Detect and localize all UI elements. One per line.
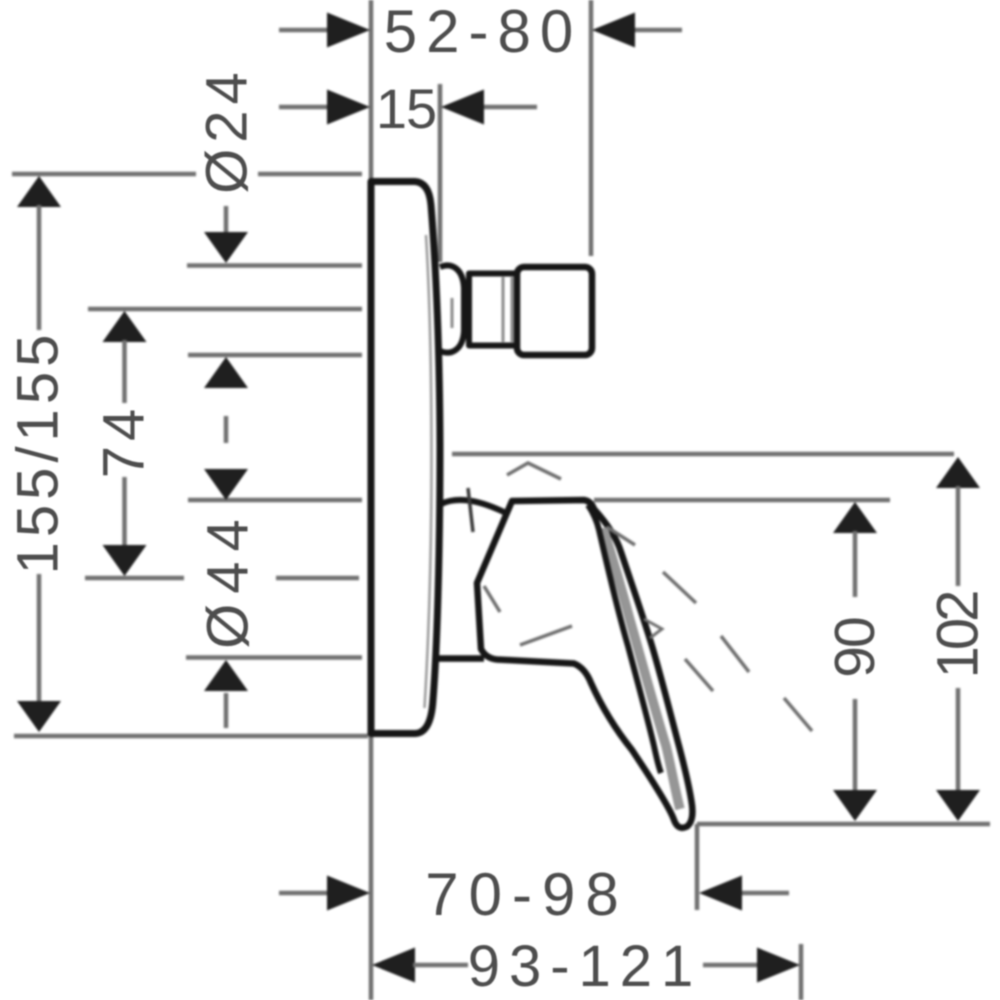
svg-text:93-121: 93-121 — [468, 934, 703, 999]
dimension 70-98 right arrow — [739, 891, 789, 896]
escutcheon plate side view — [371, 182, 440, 734]
svg-text:155/155: 155/155 — [6, 330, 71, 575]
sketch stroke bottom right — [784, 698, 812, 731]
dimension 15 right arrow — [481, 105, 537, 110]
wire connector-centerline y=309 — [88, 307, 362, 312]
dimension O24 up arrow / O44 top — [204, 357, 248, 388]
sketch stroke near lever top — [607, 527, 635, 545]
dimension 15 left arrow — [279, 105, 329, 110]
dimension 155/155 top up arrow — [17, 176, 61, 207]
svg-text:70-98: 70-98 — [425, 861, 628, 928]
wire wall vertical line — [369, 0, 374, 1000]
handle hub top arc — [441, 500, 508, 514]
sketch double stroke pair lower — [685, 659, 713, 691]
lever blade gray stripe — [603, 528, 680, 809]
dimension 90 top up arrow — [833, 502, 877, 533]
dimension 90 bottom down arrow — [853, 699, 858, 791]
wire right vertical extension line of 93-121 — [799, 944, 804, 1000]
plate front-face inner gray shading curve — [425, 235, 432, 708]
dimension 70-98 left arrow — [279, 891, 328, 896]
dimension 102 top up arrow — [936, 457, 980, 488]
svg-text:52-80: 52-80 — [384, 0, 582, 65]
wire cartridge-top extension line y=500 left — [188, 498, 362, 503]
svg-text:15: 15 — [376, 77, 436, 140]
wire plate-top extension line y=174 — [12, 172, 196, 177]
dimension 93-121 right arrow — [703, 963, 760, 968]
sketch caret above handle — [507, 463, 561, 479]
connector block — [517, 267, 592, 355]
dimension 102 bottom down arrow — [956, 688, 961, 791]
dimension 74 bottom down arrow — [122, 477, 127, 546]
wire cartridge-centerline y=578 — [85, 576, 184, 581]
connector neck cylinder — [469, 274, 517, 346]
dimension 74 top up arrow — [103, 311, 147, 342]
dimension 155/155 bottom down arrow — [37, 574, 42, 702]
wire right extension vertical line of 52-80 — [589, 0, 594, 256]
svg-text:Ø24: Ø24 — [195, 66, 260, 194]
wire extension vertical line of 15 — [438, 84, 443, 262]
dimension 52-80 left arrow — [279, 28, 329, 33]
svg-text:90: 90 — [823, 618, 887, 678]
svg-text:Ø44: Ø44 — [196, 509, 261, 649]
dimension 93-121 left arrow — [372, 948, 415, 983]
wire connector-bottom extension line y=355 — [188, 353, 362, 358]
handle hub bottom line — [438, 655, 484, 662]
wire plate-bottom extension line y=736 — [14, 734, 368, 739]
handle body and lever outline — [477, 500, 692, 828]
connector neck inner lines — [502, 277, 505, 342]
dimension O44 bottom up arrow — [204, 660, 248, 691]
dimension O44 down arrow — [204, 469, 248, 500]
wire cartridge-bottom extension line y=657 — [186, 655, 362, 660]
dimension O24 down arrow — [224, 206, 229, 232]
lever blade inner edge — [588, 505, 661, 773]
wire top extension line y=454 of 102 — [452, 452, 954, 457]
sketch small mark on stripe — [644, 619, 662, 638]
sketch double stroke pair upper — [721, 636, 749, 672]
dimension 52-80 right arrow — [633, 28, 682, 33]
wire connector-top extension line y=265 — [187, 263, 362, 268]
sketch stroke below body kink — [484, 586, 500, 612]
svg-text:102: 102 — [926, 592, 991, 679]
sketch stroke right of lever — [663, 572, 696, 603]
wire lever-tip vertical extension line — [695, 824, 700, 910]
connector dome on plate — [440, 265, 464, 352]
sketch tick crossing hub arc — [468, 488, 473, 532]
sketch stroke inside body bottom — [520, 626, 572, 645]
wire handle-top extension line y=500 right of 90 — [594, 498, 890, 503]
svg-text:74: 74 — [92, 404, 157, 479]
connector dome inner gray shading — [451, 298, 454, 328]
wire lever-tip extension line y=824 — [697, 822, 990, 827]
